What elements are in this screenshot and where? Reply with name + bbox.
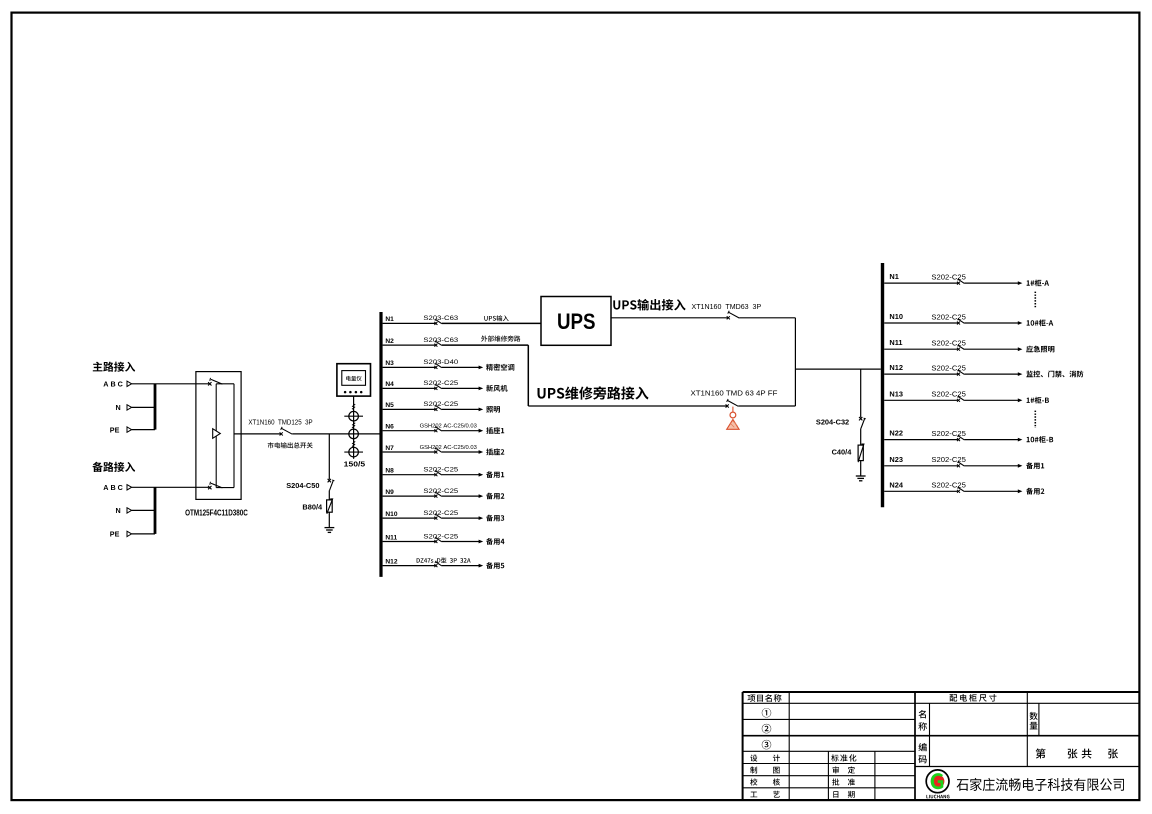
label 150/5 (344, 460, 365, 469)
wire varistor to ground (328, 512, 330, 527)
svg-text:XT1N160 TMD 63 4P FF: XT1N160 TMD 63 4P FF (691, 388, 778, 397)
title 项目名称 (748, 694, 782, 702)
wire N2 外部维修旁路 (442, 336, 529, 407)
svg-text:N4: N4 (385, 381, 394, 388)
svg-text:XT1N160 TMD125 3P: XT1N160 TMD125 3P (248, 417, 312, 426)
svg-text:N7: N7 (385, 445, 394, 452)
label 数量 (1030, 712, 1038, 730)
svg-text:C40/4: C40/4 (832, 448, 853, 457)
svg-text:S204-C32: S204-C32 (816, 417, 849, 426)
wire UPS bypass line (528, 405, 726, 407)
branch N13: breaker S202-C25, 1#柜-B (884, 389, 1049, 403)
branch N23: breaker S202-C25, 备用1 (884, 455, 1044, 469)
branch N4: breaker S202-C25 (383, 380, 459, 390)
label UPS维修旁路接入 (538, 386, 649, 399)
svg-text:S202-C25: S202-C25 (423, 467, 458, 474)
svg-text:N13: N13 (889, 389, 903, 398)
svg-text:N1: N1 (889, 272, 898, 281)
terminal 主路 PE (110, 425, 132, 434)
terminal 备路 N (116, 506, 132, 515)
varistor B80/4 (302, 499, 332, 514)
row 日期 (833, 791, 854, 798)
bus middle distribution busbar (379, 312, 382, 577)
label 名称 (918, 710, 927, 731)
terminal 主路 A B C (103, 380, 131, 389)
row ① (762, 708, 771, 717)
transfer switch Q1 OTM125F4C11D380C (196, 372, 241, 500)
wire meter to CTs (353, 396, 355, 459)
ground (left surge) (325, 528, 335, 533)
svg-text:S203-C63: S203-C63 (423, 337, 458, 344)
wire to varistor (860, 429, 862, 446)
branch N1: breaker S203-C63 (383, 315, 459, 325)
svg-text:N23: N23 (889, 455, 903, 464)
node 主路 junction bus (154, 384, 157, 430)
terminal 备路 PE (110, 530, 132, 539)
wire to varistor (328, 490, 330, 500)
svg-text:N9: N9 (385, 489, 394, 496)
wire surge branch left (328, 434, 330, 480)
row 制图 (750, 767, 779, 774)
branch N12: breaker DZ47s D型 3P 32A (383, 558, 471, 568)
svg-text:UPS: UPS (557, 309, 596, 334)
svg-text:N10: N10 (889, 312, 903, 321)
svg-text:S202-C25: S202-C25 (423, 533, 458, 540)
branch N9: breaker S202-C25 (383, 488, 459, 498)
row 审定 (833, 766, 855, 773)
wire/arrow N11 备用4 (442, 538, 505, 545)
svg-text:N22: N22 (889, 429, 903, 438)
wire 备路 N (132, 509, 155, 511)
UPS unit U1 (541, 297, 611, 346)
wire/arrow N12 备用5 (442, 562, 505, 569)
branch N12: breaker S202-C25, 监控、门禁、消防 (884, 363, 1083, 377)
wire/arrow N5 照明 (442, 406, 500, 413)
title block grid (743, 692, 1140, 800)
row 设计 (750, 755, 780, 762)
svg-text:N6: N6 (385, 424, 394, 431)
wire N1 to UPS, label UPS输入 (442, 315, 541, 323)
svg-text:N8: N8 (385, 468, 394, 475)
breaker QF1 XT1N160 TMD125 3P 市电输出总开关 (248, 417, 312, 448)
branch N2: breaker S203-C63 (383, 337, 459, 347)
wire to right junction (739, 318, 795, 406)
CT 150/5 (3 current transformers) (344, 404, 363, 457)
svg-text:N: N (116, 506, 121, 515)
svg-text:150/5: 150/5 (344, 460, 365, 469)
label 主路接入 (93, 362, 135, 372)
svg-text:N12: N12 (889, 363, 903, 372)
wire bypass to junction (738, 405, 795, 407)
svg-text:N10: N10 (385, 511, 397, 518)
svg-text:S202-C25: S202-C25 (423, 380, 458, 387)
svg-text:S204-C50: S204-C50 (286, 481, 319, 490)
row 校核 (750, 778, 780, 785)
svg-text:N5: N5 (385, 402, 394, 409)
padlock symbol (red) on bypass breaker (727, 407, 739, 430)
branch N5: breaker S202-C25 (383, 401, 459, 411)
row 标准化 (831, 754, 856, 761)
wire 主路 N (132, 406, 155, 408)
ground (right surge) (856, 476, 866, 481)
wire varistor to ground (860, 461, 862, 476)
svg-text:S202-C25: S202-C25 (423, 401, 458, 408)
svg-text:OTM125F4C11D380C: OTM125F4C11D380C (185, 509, 248, 518)
branch N7: breaker GSH202 AC-C25/0.03 (383, 445, 478, 454)
branch N3: breaker S203-D40 (383, 359, 459, 369)
wire UPS output (611, 317, 728, 319)
svg-text:XT1N160 TMD63 3P: XT1N160 TMD63 3P (692, 302, 762, 311)
varistor C40/4 (832, 444, 864, 462)
wire/arrow N9 备用2 (442, 493, 505, 500)
branch N10: breaker S202-C25 (383, 510, 459, 520)
wire/arrow N6 插座1 (442, 427, 504, 434)
svg-text:N3: N3 (385, 360, 394, 367)
continuation dots N1..N10 (1034, 292, 1036, 309)
wire breaker to bus (292, 433, 379, 435)
energy meter 电量仪 (337, 364, 371, 396)
branch N1: breaker S202-C25, 1#柜-A (884, 272, 1049, 286)
label UPS输出接入 (613, 299, 685, 311)
svg-text:PE: PE (110, 425, 120, 434)
label 第 张 共 张 (1036, 748, 1118, 758)
breaker S204-C50 (286, 479, 334, 491)
wire/arrow N3 精密空调 (442, 364, 515, 371)
branch N22: breaker S202-C25, 10#柜-B (884, 429, 1053, 443)
wire/arrow N10 备用3 (442, 515, 504, 522)
label 备路接入 (92, 462, 135, 472)
breaker XT1N160 TMD 63 4P FF (bypass) (691, 388, 778, 407)
wire surge branch right (860, 369, 862, 417)
svg-text:N24: N24 (889, 480, 903, 489)
wire 备路 ABC to ATS (132, 486, 210, 488)
breaker S204-C32 (816, 417, 866, 429)
label 编码 (918, 743, 926, 763)
breaker XT1N160 TMD63 3P (UPS output) (692, 302, 762, 320)
wire/arrow N4 新风机 (442, 385, 508, 392)
svg-text:N2: N2 (385, 338, 394, 345)
branch N24: breaker S202-C25, 备用2 (884, 480, 1044, 494)
wire ATS output (234, 433, 281, 435)
svg-text:S203-D40: S203-D40 (423, 359, 458, 366)
wire feed to right bus (795, 368, 880, 370)
svg-text:A B C: A B C (103, 483, 123, 492)
company name 石家庄流畅电子科技有限公司 (957, 778, 1124, 791)
continuation dots N13..N22 (1034, 411, 1036, 428)
wire 主路 PE (132, 429, 155, 431)
node 备路 junction bus (154, 487, 157, 534)
row 工艺 (750, 791, 779, 798)
svg-text:A B C: A B C (103, 380, 123, 389)
branch N10: breaker S202-C25, 10#柜-A (884, 312, 1053, 326)
row ③ (762, 740, 771, 749)
svg-text:N11: N11 (385, 534, 397, 541)
branch N11: breaker S202-C25, 应急照明 (884, 338, 1054, 352)
svg-text:N12: N12 (385, 558, 397, 565)
wire/arrow N8 备用1 (442, 471, 504, 478)
svg-text:N: N (116, 403, 121, 412)
label OTM125F4C11D380C (185, 509, 248, 518)
terminal 主路 N (116, 403, 132, 412)
wire 备路 PE (132, 533, 155, 535)
svg-text:PE: PE (110, 530, 120, 539)
branch N8: breaker S202-C25 (383, 467, 459, 477)
svg-text:B80/4: B80/4 (302, 503, 323, 512)
terminal 备路 A B C (103, 483, 131, 492)
svg-text:S202-C25: S202-C25 (423, 488, 458, 495)
branch N11: breaker S202-C25 (383, 533, 459, 543)
svg-text:S203-C63: S203-C63 (423, 315, 458, 322)
branch N6: breaker GSH202 AC-C25/0.03 (383, 424, 478, 433)
svg-text:GSH202 AC-C25/0.03: GSH202 AC-C25/0.03 (420, 424, 478, 430)
header 配电柜尺寸 (950, 694, 997, 702)
svg-text:GSH202 AC-C25/0.03: GSH202 AC-C25/0.03 (420, 445, 478, 451)
wire 主路 ABC to ATS (132, 383, 210, 385)
svg-text:S202-C25: S202-C25 (423, 510, 458, 517)
row 批准 (832, 779, 855, 786)
svg-text:N1: N1 (385, 316, 394, 323)
wire/arrow N7 插座2 (442, 448, 505, 455)
row ② (762, 724, 771, 733)
company logo LIUCHANG (926, 770, 949, 799)
svg-text:N11: N11 (889, 338, 902, 347)
bus right distribution busbar (881, 263, 884, 507)
